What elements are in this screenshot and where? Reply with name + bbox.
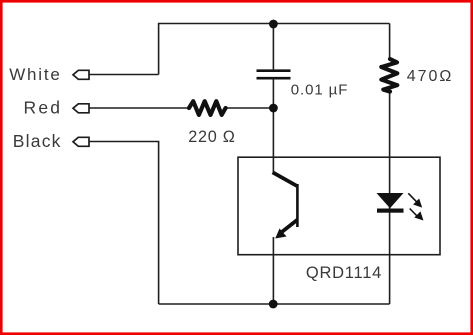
wire white lead xyxy=(89,74,159,76)
svg-text:White: White xyxy=(9,65,61,84)
wire capacitor bottom branch xyxy=(272,79,274,108)
wire red lead xyxy=(89,107,189,109)
LED D1 triangle xyxy=(377,193,404,208)
connector pin White xyxy=(73,70,89,79)
resistor R2 470 ohm zigzag xyxy=(381,59,397,92)
svg-text:Red: Red xyxy=(24,98,63,118)
capacitor C1 plates xyxy=(257,71,291,79)
wire transistor emitter to bottom xyxy=(272,237,274,304)
connector pin Red xyxy=(73,104,89,113)
junction node top xyxy=(269,20,278,29)
QRD1114 package box xyxy=(238,157,440,255)
wire resistor R2 to LED and bottom xyxy=(389,93,391,304)
wire top horizontal xyxy=(159,24,390,75)
LED light arrow lower xyxy=(410,209,423,220)
wire node to transistor collector xyxy=(272,108,274,173)
connector pin Black xyxy=(73,137,89,146)
phototransistor Q1 collector stroke xyxy=(273,172,297,186)
svg-text:470Ω: 470Ω xyxy=(407,68,454,85)
phototransistor Q1 emitter stroke with arrow xyxy=(281,220,298,233)
wire black lead xyxy=(89,142,159,305)
LED light arrow upper xyxy=(408,193,421,206)
svg-text:220 Ω: 220 Ω xyxy=(188,128,235,146)
svg-text:QRD1114: QRD1114 xyxy=(306,264,382,282)
wire resistor R1 to node xyxy=(226,107,274,109)
wire right branch top xyxy=(389,24,391,58)
junction node middle xyxy=(269,104,278,113)
svg-text:Black: Black xyxy=(13,131,62,151)
LED D1 cathode bar xyxy=(377,209,404,213)
wire bottom horizontal xyxy=(159,303,390,305)
svg-text:0.01 µF: 0.01 µF xyxy=(291,82,348,99)
resistor R1 220 ohm zigzag xyxy=(189,101,226,115)
junction node bottom xyxy=(269,300,278,309)
wire capacitor top branch xyxy=(272,24,274,70)
phototransistor Q1 base bar xyxy=(296,184,299,227)
